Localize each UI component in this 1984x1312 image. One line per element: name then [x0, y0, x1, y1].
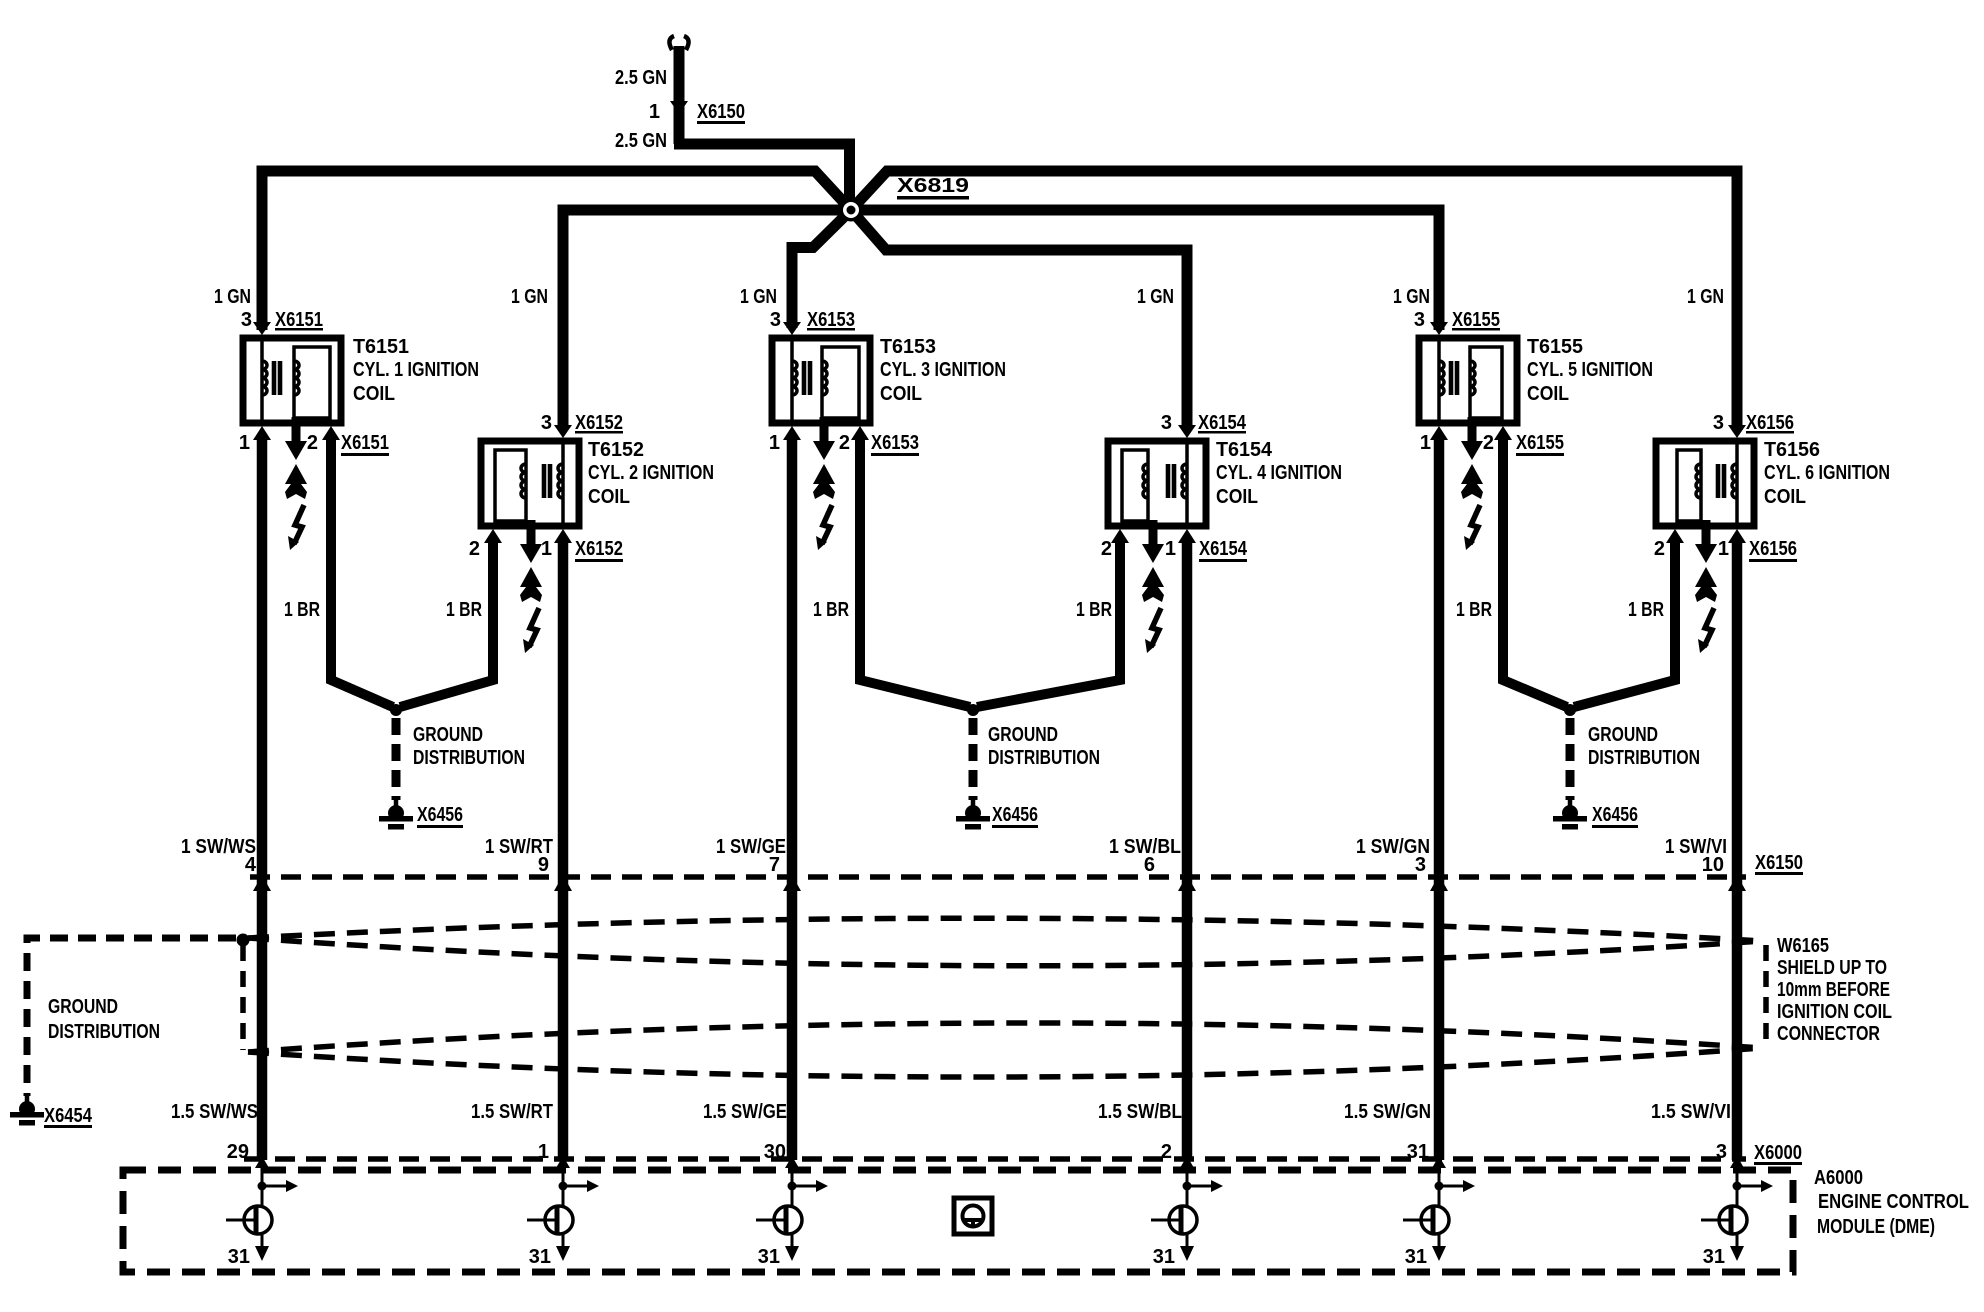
svg-text:X6156: X6156 [1746, 412, 1794, 434]
svg-text:DISTRIBUTION: DISTRIBUTION [413, 747, 525, 769]
svg-text:DISTRIBUTION: DISTRIBUTION [48, 1021, 160, 1043]
svg-text:X6150: X6150 [1755, 852, 1803, 874]
svg-text:X6819: X6819 [897, 175, 969, 197]
svg-text:COIL: COIL [880, 383, 922, 405]
svg-text:1.5 SW/RT: 1.5 SW/RT [471, 1101, 553, 1123]
svg-text:X6151: X6151 [275, 309, 323, 331]
svg-text:X6153: X6153 [871, 432, 919, 454]
svg-text:31: 31 [1153, 1246, 1175, 1268]
svg-text:1: 1 [538, 1141, 549, 1163]
svg-text:CYL. 3 IGNITION: CYL. 3 IGNITION [880, 359, 1006, 381]
svg-text:CONNECTOR: CONNECTOR [1777, 1023, 1880, 1045]
svg-text:CYL. 4 IGNITION: CYL. 4 IGNITION [1216, 462, 1342, 484]
svg-text:A6000: A6000 [1814, 1167, 1863, 1189]
svg-text:1: 1 [541, 538, 552, 560]
svg-text:4: 4 [245, 854, 257, 876]
svg-text:1 GN: 1 GN [740, 286, 777, 308]
svg-text:X6151: X6151 [341, 432, 389, 454]
svg-text:X6154: X6154 [1198, 412, 1247, 434]
svg-text:CYL. 6 IGNITION: CYL. 6 IGNITION [1764, 462, 1890, 484]
svg-text:T6154: T6154 [1216, 439, 1273, 461]
svg-text:X6153: X6153 [807, 309, 855, 331]
svg-text:3: 3 [241, 309, 252, 331]
svg-text:6: 6 [1144, 854, 1155, 876]
svg-text:2: 2 [1483, 432, 1494, 454]
svg-text:1: 1 [649, 101, 660, 123]
svg-text:1.5 SW/WS: 1.5 SW/WS [171, 1101, 258, 1123]
svg-text:X6456: X6456 [1592, 804, 1638, 826]
svg-text:10: 10 [1702, 854, 1724, 876]
svg-text:1: 1 [239, 432, 250, 454]
svg-text:IGNITION COIL: IGNITION COIL [1777, 1001, 1892, 1023]
svg-text:X6456: X6456 [417, 804, 463, 826]
svg-text:COIL: COIL [1216, 486, 1258, 508]
svg-text:X6454: X6454 [44, 1105, 93, 1127]
svg-text:31: 31 [529, 1246, 551, 1268]
svg-text:1 GN: 1 GN [1393, 286, 1430, 308]
svg-text:31: 31 [228, 1246, 250, 1268]
svg-text:W6165: W6165 [1777, 935, 1829, 957]
svg-text:1 BR: 1 BR [1456, 599, 1492, 621]
svg-text:31: 31 [758, 1246, 780, 1268]
svg-text:GROUND: GROUND [1588, 724, 1658, 746]
svg-text:31: 31 [1407, 1141, 1429, 1163]
svg-text:X6156: X6156 [1749, 538, 1797, 560]
svg-text:1 GN: 1 GN [1687, 286, 1724, 308]
svg-text:1 GN: 1 GN [214, 286, 251, 308]
svg-text:1: 1 [1718, 538, 1729, 560]
svg-text:1 BR: 1 BR [1076, 599, 1112, 621]
svg-text:9: 9 [538, 854, 549, 876]
svg-text:29: 29 [227, 1141, 249, 1163]
svg-text:CYL. 5 IGNITION: CYL. 5 IGNITION [1527, 359, 1653, 381]
svg-text:31: 31 [1405, 1246, 1427, 1268]
svg-text:CYL. 1 IGNITION: CYL. 1 IGNITION [353, 359, 479, 381]
svg-text:COIL: COIL [1527, 383, 1569, 405]
svg-text:X6000: X6000 [1754, 1142, 1802, 1164]
svg-text:SHIELD UP TO: SHIELD UP TO [1777, 957, 1887, 979]
svg-text:3: 3 [1161, 412, 1172, 434]
svg-text:10mm BEFORE: 10mm BEFORE [1777, 979, 1890, 1001]
svg-text:3: 3 [1716, 1141, 1727, 1163]
svg-text:X6154: X6154 [1199, 538, 1248, 560]
svg-text:7: 7 [769, 854, 780, 876]
svg-text:1: 1 [769, 432, 780, 454]
svg-text:GROUND: GROUND [988, 724, 1058, 746]
svg-text:3: 3 [1713, 412, 1724, 434]
svg-text:1.5 SW/VI: 1.5 SW/VI [1651, 1101, 1731, 1123]
svg-text:2: 2 [1161, 1141, 1172, 1163]
svg-text:T6152: T6152 [588, 439, 644, 461]
svg-text:GROUND: GROUND [413, 724, 483, 746]
svg-text:2.5 GN: 2.5 GN [615, 67, 667, 89]
svg-text:X6152: X6152 [575, 412, 623, 434]
svg-text:COIL: COIL [353, 383, 395, 405]
svg-text:T6151: T6151 [353, 336, 409, 358]
svg-text:3: 3 [1414, 309, 1425, 331]
svg-text:1 GN: 1 GN [1137, 286, 1174, 308]
svg-text:1.5 SW/GN: 1.5 SW/GN [1344, 1101, 1431, 1123]
svg-text:X6155: X6155 [1452, 309, 1500, 331]
svg-text:1 GN: 1 GN [511, 286, 548, 308]
svg-text:T6156: T6156 [1764, 439, 1820, 461]
svg-text:T6155: T6155 [1527, 336, 1583, 358]
svg-text:MODULE (DME): MODULE (DME) [1817, 1216, 1935, 1238]
svg-text:30: 30 [764, 1141, 786, 1163]
svg-text:1 BR: 1 BR [284, 599, 320, 621]
svg-text:2: 2 [469, 538, 480, 560]
svg-text:1.5 SW/BL: 1.5 SW/BL [1098, 1101, 1182, 1123]
svg-text:COIL: COIL [1764, 486, 1806, 508]
svg-text:COIL: COIL [588, 486, 630, 508]
svg-text:T6153: T6153 [880, 336, 936, 358]
svg-text:X6152: X6152 [575, 538, 623, 560]
svg-text:X6150: X6150 [697, 101, 745, 123]
svg-text:2.5 GN: 2.5 GN [615, 130, 667, 152]
svg-text:1: 1 [1165, 538, 1176, 560]
svg-text:DISTRIBUTION: DISTRIBUTION [988, 747, 1100, 769]
svg-text:1 BR: 1 BR [813, 599, 849, 621]
svg-text:CYL. 2 IGNITION: CYL. 2 IGNITION [588, 462, 714, 484]
svg-text:1 BR: 1 BR [1628, 599, 1664, 621]
svg-text:X6456: X6456 [992, 804, 1038, 826]
svg-text:31: 31 [1703, 1246, 1725, 1268]
svg-text:X6155: X6155 [1516, 432, 1564, 454]
svg-text:2: 2 [1101, 538, 1112, 560]
svg-text:3: 3 [1415, 854, 1426, 876]
svg-text:3: 3 [541, 412, 552, 434]
svg-text:1: 1 [1420, 432, 1431, 454]
svg-text:2: 2 [839, 432, 850, 454]
svg-text:3: 3 [770, 309, 781, 331]
svg-text:DISTRIBUTION: DISTRIBUTION [1588, 747, 1700, 769]
svg-text:GROUND: GROUND [48, 996, 118, 1018]
svg-text:ENGINE CONTROL: ENGINE CONTROL [1818, 1191, 1969, 1213]
svg-text:2: 2 [307, 432, 318, 454]
svg-text:2: 2 [1654, 538, 1665, 560]
svg-text:1.5 SW/GE: 1.5 SW/GE [703, 1101, 787, 1123]
svg-text:1 BR: 1 BR [446, 599, 482, 621]
